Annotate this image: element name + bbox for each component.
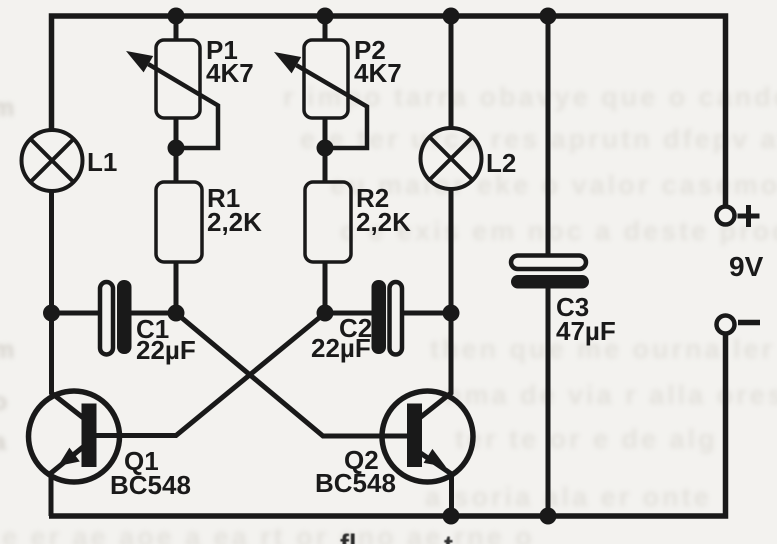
label C3 47uF <box>556 292 616 346</box>
battery positive terminal <box>717 207 735 225</box>
potentiometer P2 <box>274 40 367 148</box>
wire left rail L1 to C1 node <box>49 191 54 313</box>
svg-text:BC548: BC548 <box>315 468 396 498</box>
label Q1 BC548 <box>110 446 191 500</box>
svg-text:47µF: 47µF <box>556 316 616 346</box>
svg-text:22µF: 22µF <box>136 335 196 365</box>
svg-text:BC548: BC548 <box>110 470 191 500</box>
node Q2 collector C2 L2 <box>443 305 460 322</box>
potentiometer P1 <box>126 40 218 148</box>
node junction dots <box>43 8 557 525</box>
lamp L1 <box>22 130 83 191</box>
transistor Q1 <box>29 391 120 482</box>
lamp L2 <box>421 128 482 189</box>
label P2 4K7 <box>354 35 402 88</box>
svg-text:4K7: 4K7 <box>206 58 254 88</box>
wire C2 left segment <box>325 311 373 316</box>
svg-text:L2: L2 <box>486 148 516 178</box>
capacitor C3 <box>511 256 589 289</box>
svg-text:22µF: 22µF <box>311 333 371 363</box>
svg-text:4K7: 4K7 <box>354 58 402 88</box>
wire R1 to C1 node <box>174 262 179 313</box>
resistor R2 <box>305 182 351 262</box>
capacitor C2 <box>372 280 403 355</box>
wire L2 bottom to C2 node <box>449 189 454 313</box>
wire C1 left segment <box>52 311 102 316</box>
wire P2 top <box>323 16 328 40</box>
svg-text:9V: 9V <box>729 251 764 282</box>
wire Q1 emitter lead <box>51 447 83 516</box>
label Q2 BC548 <box>315 445 396 498</box>
label C2 22uF <box>311 313 372 363</box>
svg-text:2,2K: 2,2K <box>207 207 262 237</box>
wire Q2 base cross-coupling to node B1 <box>176 313 408 436</box>
label R1 2,2K <box>207 183 262 237</box>
svg-text:L1: L1 <box>87 147 117 177</box>
node B2 (R2 C2 Q1-base) <box>317 305 334 322</box>
wire C3 bottom <box>546 288 551 516</box>
label C1 22uF <box>136 314 196 365</box>
node top L2 <box>443 8 460 25</box>
node P1 wiper R1 <box>168 140 185 157</box>
node top P1 <box>168 8 185 25</box>
wire R2 to C2 node <box>323 262 328 313</box>
node bottom Q2 emitter <box>443 508 460 525</box>
capacitor C1 <box>100 280 132 355</box>
node Q1 collector C1 <box>43 305 60 322</box>
plus sign <box>738 205 760 227</box>
minus sign <box>738 320 760 326</box>
node top P2 <box>317 8 334 25</box>
node bottom C3 <box>540 508 557 525</box>
wire C2 right segment <box>400 311 451 316</box>
svg-text:2,2K: 2,2K <box>356 207 411 237</box>
wire L2 top <box>449 16 454 128</box>
wire C1 right segment <box>131 311 176 316</box>
wire bottom rail <box>49 334 726 516</box>
transistor Q2 <box>382 391 473 482</box>
label R2 2,2K <box>356 183 411 237</box>
wire P1 top <box>174 16 179 40</box>
wire Q1 base cross-coupling to node B2 <box>96 313 325 436</box>
wire top supply rail <box>52 16 726 206</box>
label P1 4K7 <box>206 35 254 88</box>
wire P1 to R1 <box>174 118 179 182</box>
node top C3 <box>540 8 557 25</box>
wire Q2 emitter lead <box>413 448 452 516</box>
battery negative terminal <box>717 316 735 334</box>
node B1 (R1 C1 Q2-base) <box>168 305 185 322</box>
ghost bleed-through text lines <box>283 82 777 113</box>
wire Q1 collector <box>52 313 87 420</box>
wire P2 to R2 <box>323 118 328 182</box>
wire C3 top <box>546 16 551 256</box>
resistor R1 <box>156 182 202 262</box>
node P2 wiper R2 <box>317 140 334 157</box>
wire Q2 collector <box>417 313 451 420</box>
